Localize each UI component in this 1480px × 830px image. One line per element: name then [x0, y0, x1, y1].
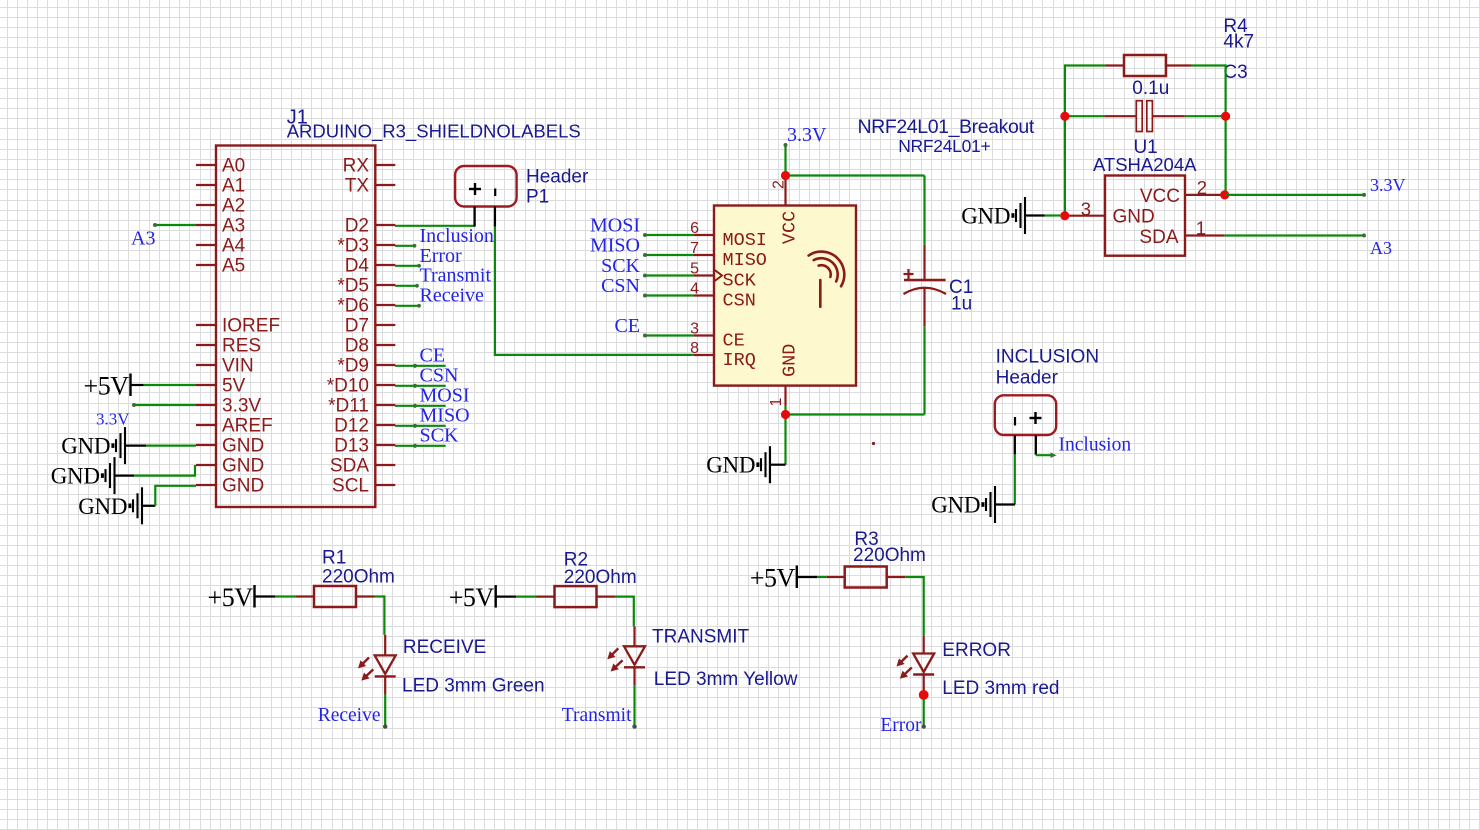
svg-text:D7: D7: [345, 316, 369, 337]
svg-text:3.3V: 3.3V: [787, 124, 827, 146]
svg-text:MISO: MISO: [590, 235, 640, 257]
svg-text:SDA: SDA: [1139, 227, 1178, 248]
svg-text:NRF24L01_Breakout: NRF24L01_Breakout: [857, 116, 1034, 138]
svg-text:ARDUINO_R3_SHIELDNOLABELS: ARDUINO_R3_SHIELDNOLABELS: [287, 121, 581, 143]
svg-text:A3: A3: [222, 216, 245, 237]
svg-text:A0: A0: [222, 156, 245, 177]
svg-text:D8: D8: [345, 336, 369, 357]
svg-text:GND: GND: [1113, 207, 1155, 228]
svg-text:CSN: CSN: [601, 275, 640, 297]
svg-text:Transmit: Transmit: [420, 265, 492, 287]
svg-text:IOREF: IOREF: [222, 316, 280, 337]
svg-text:Header: Header: [996, 368, 1059, 389]
svg-text:3.3V: 3.3V: [222, 396, 261, 417]
svg-text:*D5: *D5: [337, 276, 369, 297]
svg-text:GND: GND: [222, 436, 264, 457]
svg-text:GND: GND: [779, 344, 800, 377]
svg-text:*D10: *D10: [327, 376, 369, 397]
svg-text:+5V: +5V: [208, 583, 254, 612]
svg-text:*D3: *D3: [337, 236, 369, 257]
svg-text:A2: A2: [222, 196, 245, 217]
svg-text:CE: CE: [614, 315, 640, 337]
svg-text:ERROR: ERROR: [942, 640, 1011, 661]
svg-text:D13: D13: [334, 436, 369, 457]
svg-text:Receive: Receive: [420, 285, 485, 307]
svg-text:RX: RX: [343, 156, 370, 177]
svg-text:CSN: CSN: [420, 365, 459, 387]
svg-text:IRQ: IRQ: [723, 350, 756, 371]
svg-text:CE: CE: [723, 331, 745, 352]
svg-text:VIN: VIN: [222, 356, 254, 377]
svg-text:SCK: SCK: [601, 255, 640, 277]
svg-text:LED 3mm Green: LED 3mm Green: [402, 676, 545, 697]
svg-text:GND: GND: [222, 456, 264, 477]
svg-text:2: 2: [1197, 177, 1207, 198]
svg-text:+5V: +5V: [750, 564, 796, 593]
svg-text:1: 1: [768, 398, 785, 407]
svg-text:A3: A3: [1370, 238, 1392, 258]
svg-text:Receive: Receive: [318, 705, 381, 726]
svg-text:VCC: VCC: [1140, 186, 1180, 207]
svg-text:ATSHA204A: ATSHA204A: [1093, 154, 1197, 175]
svg-text:MISO: MISO: [723, 250, 767, 271]
svg-text:P1: P1: [526, 187, 549, 208]
svg-text:TX: TX: [345, 176, 370, 197]
svg-text:LED 3mm red: LED 3mm red: [942, 678, 1059, 699]
svg-text:C3: C3: [1223, 62, 1247, 83]
svg-text:A5: A5: [222, 256, 245, 277]
svg-text:1u: 1u: [951, 294, 972, 315]
svg-text:Error: Error: [880, 715, 922, 736]
svg-text:Transmit: Transmit: [562, 705, 632, 726]
svg-text:D4: D4: [345, 256, 370, 277]
svg-text:CSN: CSN: [723, 291, 756, 312]
svg-text:*D6: *D6: [337, 296, 369, 317]
svg-text:D12: D12: [334, 416, 369, 437]
svg-text:+5V: +5V: [84, 372, 130, 401]
svg-text:*D11: *D11: [328, 396, 369, 417]
svg-text:*D9: *D9: [337, 356, 369, 377]
svg-text:4k7: 4k7: [1223, 32, 1254, 53]
svg-text:INCLUSION: INCLUSION: [996, 346, 1099, 367]
svg-text:NRF24L01+: NRF24L01+: [898, 136, 990, 156]
svg-text:R1: R1: [322, 548, 346, 569]
svg-text:MOSI: MOSI: [420, 385, 470, 407]
svg-text:220Ohm: 220Ohm: [564, 567, 637, 588]
svg-text:SDA: SDA: [330, 456, 369, 477]
svg-text:5V: 5V: [222, 376, 246, 397]
svg-text:SCK: SCK: [420, 425, 459, 447]
svg-text:AREF: AREF: [222, 416, 273, 437]
svg-text:2: 2: [771, 180, 788, 189]
svg-text:Inclusion: Inclusion: [420, 225, 494, 247]
svg-text:MOSI: MOSI: [723, 230, 767, 251]
svg-text:LED 3mm Yellow: LED 3mm Yellow: [654, 669, 798, 690]
svg-text:RECEIVE: RECEIVE: [403, 637, 486, 658]
svg-text:GND: GND: [78, 494, 127, 519]
svg-text:D2: D2: [345, 216, 369, 237]
svg-text:SCK: SCK: [723, 271, 757, 292]
svg-text:3: 3: [1081, 199, 1091, 220]
svg-text:MISO: MISO: [420, 405, 470, 427]
svg-text:1: 1: [1196, 218, 1206, 239]
svg-text:GND: GND: [51, 464, 100, 489]
svg-text:3.3V: 3.3V: [1370, 175, 1406, 195]
svg-text:CE: CE: [420, 345, 446, 367]
svg-text:GND: GND: [931, 493, 980, 518]
svg-text:220Ohm: 220Ohm: [853, 545, 926, 566]
svg-text:A1: A1: [222, 176, 245, 197]
svg-text:VCC: VCC: [779, 211, 800, 244]
svg-text:8: 8: [690, 340, 699, 357]
svg-text:MOSI: MOSI: [590, 215, 640, 237]
svg-text:RES: RES: [222, 336, 261, 357]
svg-text:3.3V: 3.3V: [96, 409, 130, 428]
svg-text:A4: A4: [222, 236, 246, 257]
svg-text:A3: A3: [131, 228, 155, 250]
svg-text:220Ohm: 220Ohm: [322, 567, 395, 588]
svg-text:Header: Header: [526, 167, 589, 188]
svg-text:GND: GND: [706, 453, 755, 478]
svg-text:TRANSMIT: TRANSMIT: [652, 626, 750, 647]
svg-text:GND: GND: [222, 476, 264, 497]
svg-text:GND: GND: [61, 434, 110, 459]
svg-text:0.1u: 0.1u: [1132, 78, 1169, 99]
svg-text:+5V: +5V: [449, 583, 495, 612]
svg-text:Inclusion: Inclusion: [1059, 435, 1132, 456]
svg-text:GND: GND: [961, 204, 1010, 229]
svg-text:SCL: SCL: [332, 476, 369, 497]
